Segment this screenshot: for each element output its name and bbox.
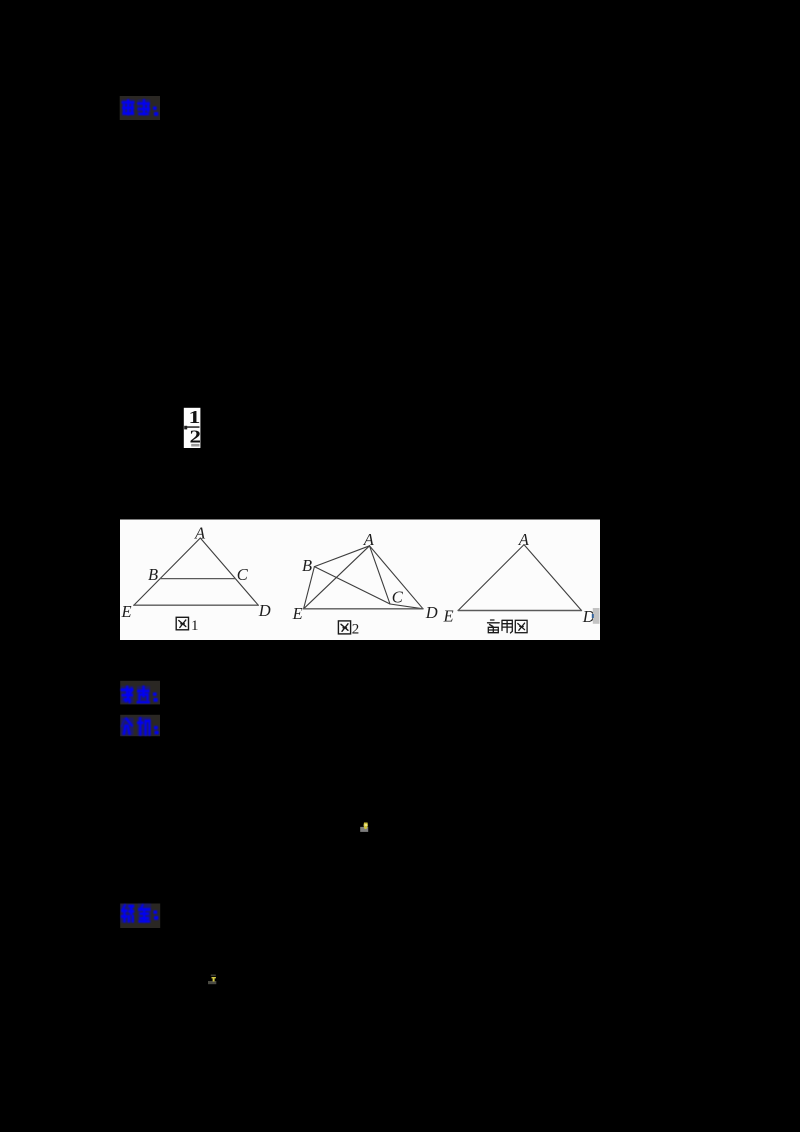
svg-text:E: E	[443, 607, 454, 626]
equals-sign remnant at left edge	[184, 426, 187, 430]
fig2 edge BE	[304, 567, 315, 609]
tiny icon remnant 1 (yellow mark on gray box)	[360, 823, 368, 832]
fig2 edge AD	[370, 546, 424, 609]
fig2 edge AC	[370, 546, 391, 604]
gray smudge bottom of equation box	[191, 444, 199, 447]
fig2 edge AE	[304, 546, 370, 609]
spare side AD	[524, 545, 582, 611]
svg-text:1: 1	[188, 407, 200, 428]
svg-text:D: D	[258, 601, 271, 620]
fig1 vertex labels	[121, 523, 271, 621]
fig1 segment BC	[161, 578, 236, 580]
label block 3 (blue section label) background	[120, 715, 160, 736]
inline equation image: fraction 1/2 on white box	[184, 407, 201, 448]
tiny icon remnant 2 (yellow mark on gray box)	[208, 975, 216, 985]
label block 1 (blue section label, top) background	[120, 96, 160, 120]
label block 4 blue glyphs	[121, 904, 158, 923]
spare base ED	[458, 610, 581, 612]
svg-text:B: B	[302, 556, 312, 575]
fig1 side AD	[200, 538, 258, 605]
label block 2 blue glyphs	[121, 686, 158, 704]
fig2 caption "图2" drawn glyph	[338, 621, 350, 634]
fig1 side AE	[134, 538, 201, 605]
svg-text:2: 2	[352, 622, 360, 638]
label block 3 blue glyphs	[121, 717, 159, 736]
spare caption "备用图" drawn glyphs	[488, 620, 528, 633]
fig2 base ED	[304, 608, 423, 610]
svg-text:B: B	[148, 565, 158, 584]
label block 1 blue glyphs	[122, 99, 159, 116]
label block 4 (blue section label) background	[120, 904, 160, 929]
fig2 edge BC	[314, 567, 390, 604]
fig2 edge AB	[314, 546, 369, 567]
svg-text:C: C	[392, 588, 404, 607]
spare vertex labels	[443, 530, 595, 626]
svg-text:D: D	[425, 603, 438, 622]
svg-text:A: A	[518, 530, 530, 549]
svg-text:A: A	[194, 523, 206, 542]
fig2 vertex labels	[292, 530, 438, 623]
white figure panel	[120, 520, 600, 641]
fig1 caption "图1" drawn glyph	[176, 617, 188, 630]
svg-text:E: E	[121, 602, 132, 621]
selection handle (gray) with blue dot	[593, 608, 600, 624]
fig1 base ED	[134, 604, 258, 606]
fig2 edge CD	[390, 604, 423, 609]
svg-text:1: 1	[191, 618, 199, 634]
svg-text:E: E	[292, 604, 303, 623]
svg-text:C: C	[237, 565, 249, 584]
svg-text:A: A	[363, 530, 375, 549]
label block 2 (blue section label) background	[120, 681, 160, 705]
fraction bar	[186, 426, 200, 428]
spare side AE	[458, 545, 524, 611]
